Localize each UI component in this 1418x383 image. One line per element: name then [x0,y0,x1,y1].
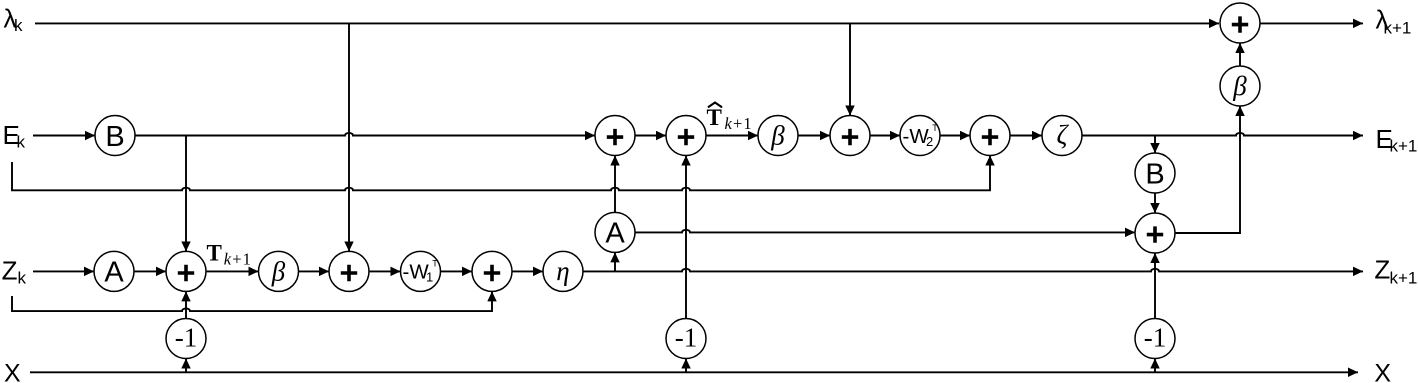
svg-text:β: β [770,121,785,151]
svg-text:1: 1 [426,270,433,285]
svg-text:β: β [271,256,286,286]
svg-text:X: X [4,359,21,383]
svg-text:T: T [707,105,722,130]
svg-text:B: B [1145,158,1164,190]
svg-text:Z: Z [1374,255,1390,285]
svg-text:k+1: k+1 [1390,137,1418,156]
svg-text:2: 2 [926,134,933,149]
svg-text:Z: Z [2,256,18,286]
svg-text:-1: -1 [675,323,698,353]
svg-text:T: T [932,123,938,133]
svg-text:k+1: k+1 [1390,268,1418,287]
svg-text:k+1: k+1 [224,250,252,269]
svg-text:-1: -1 [1144,323,1167,353]
svg-text:B: B [105,121,124,153]
svg-text:k: k [18,268,27,287]
svg-text:X: X [1374,360,1391,383]
svg-text:k+1: k+1 [1384,18,1412,37]
svg-text:-1: -1 [175,323,198,353]
svg-text:k+1: k+1 [725,114,753,133]
svg-text:β: β [1232,71,1247,101]
svg-text:k: k [17,133,26,152]
svg-text:η: η [556,256,569,286]
svg-text:A: A [104,257,124,289]
svg-text:T: T [432,259,438,269]
svg-text:k: k [14,16,23,35]
svg-text:T: T [207,241,222,266]
svg-text:A: A [605,218,625,250]
